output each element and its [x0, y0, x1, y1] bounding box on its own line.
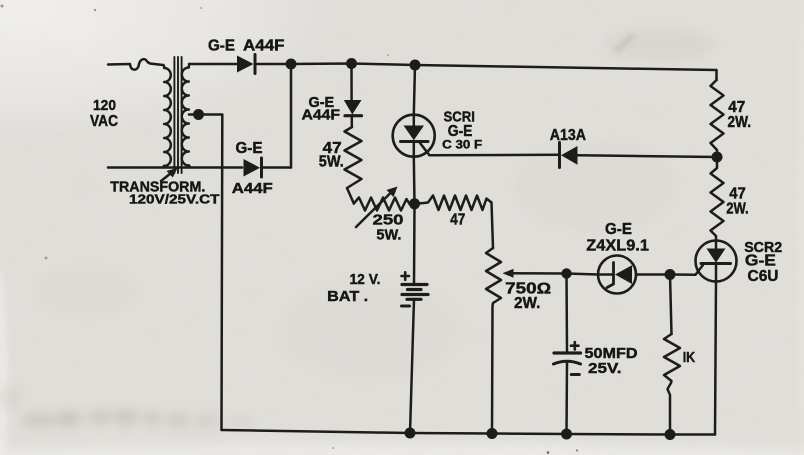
svg-text:120: 120	[93, 97, 116, 114]
svg-text:G-E: G-E	[236, 140, 263, 157]
svg-text:2W.: 2W.	[514, 295, 540, 312]
svg-text:A44F: A44F	[302, 107, 341, 124]
svg-text:Z4XL9.1: Z4XL9.1	[586, 238, 649, 255]
svg-text:G-E: G-E	[605, 221, 632, 238]
svg-text:47: 47	[450, 211, 465, 228]
svg-text:A44F: A44F	[243, 38, 285, 55]
svg-text:G-E: G-E	[448, 123, 473, 140]
svg-text:A13A: A13A	[550, 127, 586, 144]
svg-text:12 V.: 12 V.	[350, 272, 381, 288]
svg-text:2W.: 2W.	[726, 201, 749, 218]
svg-text:50MFD: 50MFD	[585, 346, 638, 362]
svg-text:25V.: 25V.	[588, 361, 622, 377]
svg-text:5W.: 5W.	[376, 227, 401, 244]
svg-text:C 30 F: C 30 F	[442, 139, 482, 151]
svg-text:5W.: 5W.	[319, 154, 344, 171]
svg-text:VAC: VAC	[90, 113, 118, 130]
svg-text:BAT .: BAT .	[327, 288, 368, 305]
svg-text:120V/25V.CT: 120V/25V.CT	[129, 192, 220, 207]
svg-text:G-E: G-E	[208, 38, 235, 55]
svg-text:2W.: 2W.	[728, 114, 752, 131]
svg-text:A44F: A44F	[232, 181, 273, 197]
svg-text:IK: IK	[683, 350, 696, 366]
svg-text:C6U: C6U	[748, 268, 779, 285]
